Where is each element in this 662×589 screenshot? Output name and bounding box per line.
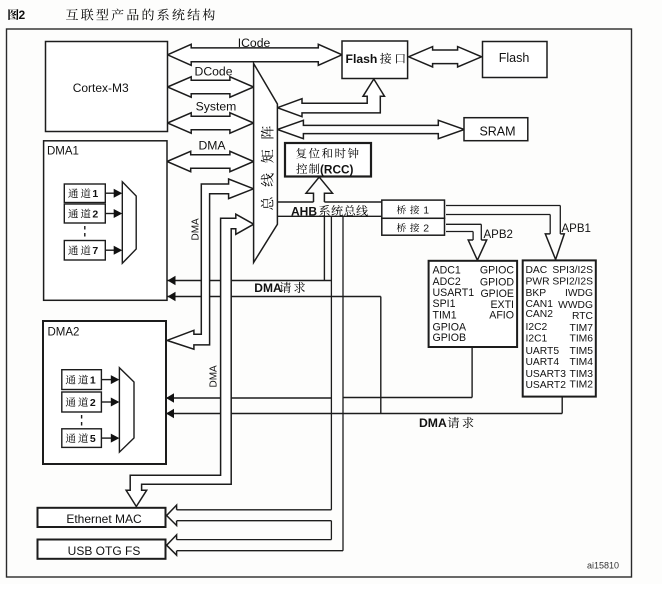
- mux DMA2: [119, 368, 134, 452]
- block DMA2: [43, 321, 166, 464]
- bus arrow bus matrix to SRAM: [277, 120, 464, 138]
- svg-text:1: 1: [423, 204, 429, 216]
- svg-text:ICode: ICode: [238, 36, 271, 50]
- svg-text:TIM1: TIM1: [433, 310, 457, 322]
- title text: [66, 8, 215, 20]
- label DMA request 1: [254, 281, 305, 295]
- svg-text:SRAM: SRAM: [479, 125, 515, 139]
- bus arrow bus matrix to Flash interface: [277, 79, 384, 117]
- svg-text:CAN2: CAN2: [526, 309, 554, 320]
- svg-text:2: 2: [19, 8, 26, 22]
- title figure label: [8, 8, 25, 22]
- svg-text:DMA: DMA: [209, 365, 220, 388]
- block Flash interface: [342, 41, 408, 79]
- label DMA request 2: [419, 416, 473, 430]
- bus band Ethernet MAC to bus matrix: [126, 214, 254, 506]
- svg-text:System: System: [196, 100, 237, 114]
- svg-text:AHB: AHB: [291, 204, 317, 218]
- svg-text:DMA: DMA: [254, 281, 282, 295]
- block DMA1 channel 7: [64, 241, 105, 261]
- label Flash interface: [346, 52, 406, 66]
- bus band APB1: [446, 206, 564, 260]
- bus arrow Flash interface to Flash: [409, 47, 482, 67]
- svg-text:IWDG: IWDG: [565, 288, 593, 299]
- wire DMA1 channel to mux: [105, 246, 122, 255]
- label DMA arrow: [198, 139, 226, 153]
- label APB1: [562, 223, 591, 235]
- label APB2: [484, 229, 513, 241]
- svg-text:SPI1: SPI1: [433, 298, 456, 310]
- block DMA1 channel 2: [64, 204, 105, 223]
- svg-text:GPIOC: GPIOC: [480, 265, 514, 277]
- ellipsis DMA1 channels: [84, 226, 86, 238]
- block DMA2 channel 1: [62, 370, 102, 390]
- svg-text:I2C1: I2C1: [526, 334, 548, 345]
- label System: [196, 100, 237, 114]
- label DMA vertical 1: [191, 218, 202, 241]
- svg-text:WWDG: WWDG: [558, 300, 593, 311]
- svg-text:Flash: Flash: [499, 51, 530, 65]
- svg-text:Ethernet MAC: Ethernet MAC: [66, 512, 142, 526]
- block SRAM: [464, 118, 528, 141]
- svg-text:DCode: DCode: [195, 65, 233, 79]
- wire DMA2 channel to mux: [101, 434, 119, 443]
- svg-text:TIM7: TIM7: [570, 323, 594, 334]
- svg-text:USART3: USART3: [526, 369, 567, 380]
- arrow into USB OTG right: [167, 535, 177, 555]
- svg-text:PWR: PWR: [526, 276, 550, 287]
- svg-text:DMA: DMA: [419, 416, 447, 430]
- arrow AHB bus to RCC: [306, 177, 333, 202]
- block bridge 1: [382, 200, 445, 218]
- svg-text:I2C2: I2C2: [526, 322, 548, 333]
- bus band DMA2 to bus matrix: [167, 179, 254, 349]
- svg-text:(RCC): (RCC): [320, 163, 353, 177]
- wire DMA2 channel to mux: [101, 375, 119, 384]
- svg-text:5: 5: [90, 433, 96, 445]
- svg-text:DMA: DMA: [191, 218, 202, 241]
- svg-text:RTC: RTC: [572, 311, 594, 322]
- label ICode: [238, 36, 271, 50]
- svg-text:GPIOD: GPIOD: [480, 276, 514, 288]
- svg-text:BKP: BKP: [526, 288, 547, 299]
- block USB OTG FS: [38, 540, 166, 559]
- wire DMA1 channel to mux: [105, 189, 122, 198]
- wire DMA request to DMA1 lower: [168, 292, 381, 414]
- svg-text:TIM3: TIM3: [570, 369, 594, 380]
- svg-text:7: 7: [92, 245, 98, 257]
- svg-text:SPI2/I2S: SPI2/I2S: [552, 276, 593, 287]
- svg-text:APB1: APB1: [562, 223, 591, 235]
- svg-text:Flash: Flash: [346, 52, 378, 66]
- svg-text:1: 1: [90, 375, 96, 387]
- bus arrow System: [168, 113, 254, 133]
- label DCode: [195, 65, 233, 79]
- svg-text:USART2: USART2: [526, 380, 567, 391]
- svg-text:2: 2: [92, 209, 98, 221]
- bus band APB2: [446, 224, 487, 260]
- block RCC reset and clock control: [285, 143, 371, 177]
- svg-text:AFIO: AFIO: [489, 310, 514, 322]
- bus arrow ICode: [168, 44, 343, 65]
- svg-text:TIM5: TIM5: [570, 346, 594, 357]
- mux DMA1: [122, 182, 136, 263]
- svg-text:APB2: APB2: [484, 229, 513, 241]
- block DMA2 channel 2: [62, 392, 102, 412]
- block bridge 2: [382, 218, 445, 235]
- block DMA1 channel 1: [64, 184, 105, 203]
- wire APB2 peripherals DMA request: [343, 347, 472, 397]
- label AHB system bus: [291, 204, 368, 218]
- svg-text:UART5: UART5: [526, 346, 560, 357]
- svg-text:2: 2: [423, 222, 429, 234]
- label ai15810: [587, 561, 619, 571]
- bus arrow DMA DMA1: [167, 151, 254, 171]
- svg-text:TIM2: TIM2: [570, 380, 594, 391]
- svg-text:DAC: DAC: [526, 265, 548, 276]
- label DMA vertical 2: [209, 365, 220, 388]
- block Cortex-M3: [46, 42, 168, 132]
- bus matrix block: [254, 64, 278, 263]
- ellipsis DMA2 channels: [81, 415, 83, 427]
- wire DMA request to DMA2 upper: [166, 393, 331, 402]
- svg-text:USB OTG FS: USB OTG FS: [68, 544, 141, 558]
- svg-text:TIM4: TIM4: [570, 357, 594, 368]
- block Flash: [483, 42, 548, 78]
- svg-text:UART4: UART4: [526, 357, 560, 368]
- svg-text:DMA1: DMA1: [47, 146, 79, 158]
- label bus matrix: [261, 126, 274, 210]
- wire DMA2 channel to mux: [101, 398, 119, 407]
- wire DMA request to DMA1 upper: [168, 276, 332, 285]
- block DMA1: [44, 141, 167, 300]
- svg-text:Cortex-M3: Cortex-M3: [73, 81, 129, 95]
- wire RCC stub: [323, 216, 325, 280]
- svg-text:GPIOB: GPIOB: [433, 332, 467, 344]
- block APB2 peripherals: [429, 261, 517, 347]
- svg-text:2: 2: [90, 397, 96, 409]
- arrow into Ethernet MAC right: [167, 505, 177, 525]
- block APB1 peripherals: [523, 260, 596, 396]
- bus arrow DCode: [168, 77, 254, 97]
- AHB system bus band: [277, 202, 381, 216]
- wire DMA1 channel to mux: [105, 209, 122, 218]
- svg-text:ai15810: ai15810: [587, 561, 619, 571]
- svg-text:SPI3/I2S: SPI3/I2S: [552, 265, 593, 276]
- svg-text:DMA: DMA: [198, 139, 226, 153]
- block Ethernet MAC: [38, 508, 166, 527]
- block DMA2 channel 5: [62, 429, 102, 448]
- bus band AHB to Ethernet and USB: [177, 216, 343, 550]
- wire DMA request line 2 to DMA2: [166, 397, 562, 418]
- svg-text:ADC1: ADC1: [433, 265, 461, 277]
- svg-text:1: 1: [92, 188, 98, 200]
- svg-text:TIM6: TIM6: [570, 334, 594, 345]
- svg-text:DMA2: DMA2: [48, 327, 80, 339]
